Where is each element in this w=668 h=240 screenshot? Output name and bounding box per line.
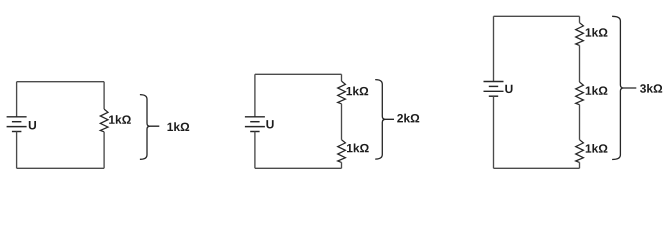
label 1kΩ (circuit 2 upper resistor) [347,87,369,96]
wire bottom (circuit 3) [494,167,580,169]
battery U (circuit 3) [484,82,504,97]
wire right lower-middle (circuit 3) [579,105,581,140]
wire right lower (circuit 2) [341,162,343,168]
battery U (circuit 1) [7,117,27,132]
wire left lower (circuit 3) [493,96,495,168]
wire left lower (circuit 2) [254,132,256,169]
resistor R2 1kΩ (circuit 2 lower) [338,140,346,163]
label 1kΩ (circuit 3 middle resistor) [586,86,608,95]
brace total (circuit 3) [612,16,636,159]
label 3kΩ (circuit 3 total) [640,84,662,93]
wire right upper (circuit 3) [579,16,581,22]
wire right upper-middle (circuit 3) [579,45,581,82]
brace total (circuit 2) [375,80,394,160]
label 2kΩ (circuit 2 total) [397,114,419,123]
label U (circuit 3) [505,85,512,93]
wire right middle (circuit 2) [341,104,343,140]
wire top (circuit 1) [17,81,105,83]
label 1kΩ (circuit 3 bottom resistor) [586,144,608,153]
label 1kΩ (circuit 1 resistor) [109,115,131,124]
wire right upper (circuit 1) [103,82,105,109]
resistor R 1kΩ (circuit 1) [100,109,108,132]
label U (circuit 2) [266,120,273,128]
wire left upper (circuit 1) [16,82,18,117]
resistor R1 1kΩ (circuit 2 upper) [338,81,346,104]
label 1kΩ (circuit 3 top resistor) [586,28,608,37]
wire bottom (circuit 1) [17,167,105,169]
wire bottom (circuit 2) [255,167,342,169]
resistor R1 1kΩ (circuit 3 top) [576,23,584,46]
wire top (circuit 2) [255,73,342,75]
brace total (circuit 1) [140,95,159,160]
battery U (circuit 2) [245,117,265,132]
label 1kΩ (circuit 2 lower resistor) [347,144,369,153]
wire right lower (circuit 3) [579,162,581,168]
resistor R2 1kΩ (circuit 3 middle) [576,82,584,105]
wire top (circuit 3) [494,15,580,17]
resistor R3 1kΩ (circuit 3 bottom) [576,140,584,163]
wire left upper (circuit 2) [254,74,256,117]
wire left lower (circuit 1) [16,132,18,169]
wire left upper (circuit 3) [493,16,495,81]
wire right lower (circuit 1) [103,132,105,169]
label U (circuit 1) [29,121,36,129]
label 1kΩ (circuit 1 total) [168,122,190,131]
wire right upper (circuit 2) [341,74,343,81]
